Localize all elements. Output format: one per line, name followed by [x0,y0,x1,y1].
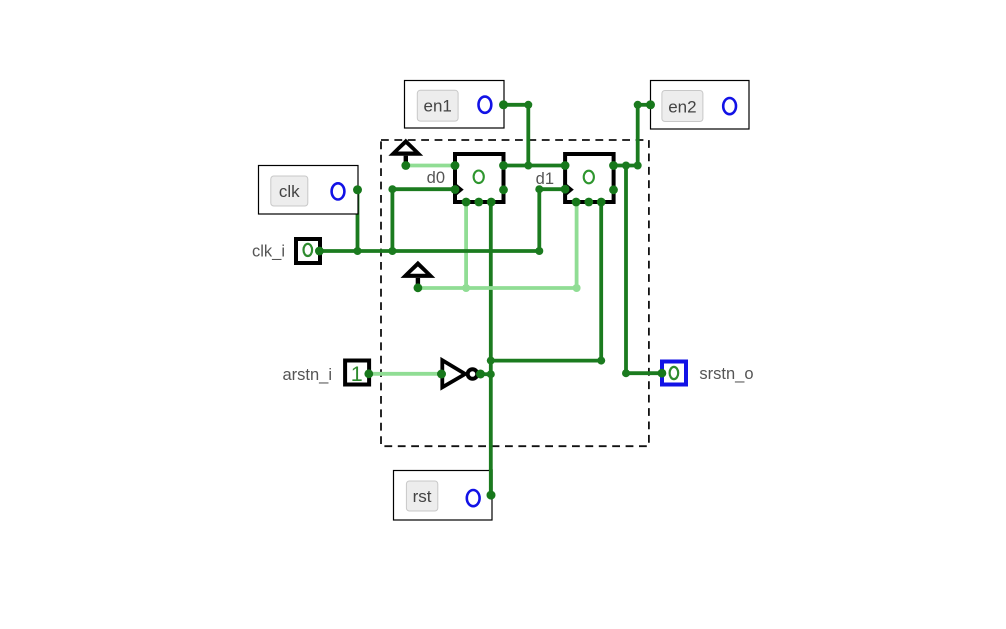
svg-text:arstn_i: arstn_i [282,366,332,384]
port clk_i [296,239,324,263]
wire net6 light-green vertical d0 bottom-left [464,202,468,288]
node net3 junction d0 branch [388,247,396,255]
wire net5 vertical to d1 bottom [599,202,603,361]
node net2 corner top [634,101,642,109]
input box clk [259,166,363,215]
node net1 junction [524,162,532,170]
svg-text:d0: d0 [427,169,445,187]
node net2 junction [622,162,630,170]
subcircuit dashed boundary [381,140,649,446]
node net2 corner mid [634,162,642,170]
node net5 corner [597,357,605,365]
svg-text:clk: clk [279,182,300,201]
node net5 junction not output [487,370,495,378]
wire net3 branch vertical to d0 [390,189,394,251]
node net3 corner d0 branch [388,185,396,193]
wire net3 horizontal to d1 clk [539,187,565,191]
input box en1 [405,81,509,129]
wire net2 vertical to srstn_o [624,166,628,374]
op-amp U1 NOT gate [437,360,485,387]
svg-text:en1: en1 [424,97,452,116]
wire net7 clock symbol to d0 (light green) [406,164,455,168]
wire net3 branch horizontal to d0 clk [392,187,455,191]
wire net3 vertical to d1 clk [537,189,541,251]
wire net1 d0.Q to d1.D horizontal [504,164,566,168]
port arstn_i [345,361,373,387]
svg-text:clk_i: clk_i [252,242,285,260]
wire net3 clk vertical from clk box [356,190,360,251]
node net6 corner [573,284,581,292]
wire net5 horizontal branch [491,359,601,363]
wire net5 not-gate output stub [480,372,491,376]
wire net3 clk_i main horizontal [319,249,539,253]
wire net2 en2 horizontal [638,103,651,107]
wire net2 d1.Q horizontal [614,164,638,168]
node net5 junction branch [487,357,495,365]
node net2 corner bottom [622,369,630,377]
wire net1 en1 horizontal [504,103,529,107]
svg-text:rst: rst [413,487,432,506]
node net3 corner top d1 [535,185,543,193]
svg-text:1: 1 [351,362,363,386]
node net3 corner bottom d1 [535,247,543,255]
input box rst [394,469,496,520]
wire net2 horizontal to srstn_o [626,371,662,375]
flip-flop d0 [451,154,508,206]
node net6 junction [462,284,470,292]
wire net2 en2 vertical [636,105,640,166]
svg-text:srstn_o: srstn_o [699,365,753,383]
node net1 corner [524,101,532,109]
svg-text:en2: en2 [668,97,696,116]
wire net6 horizontal (light green, drawn over dark vertical) [418,286,577,290]
input box en2 [646,81,749,130]
svg-text:d1: d1 [536,170,554,188]
clock symbol top (triangle) [388,139,423,170]
wire net6 light-green vertical d1 bottom-left [575,202,579,288]
node net3 junction clk [354,247,362,255]
port srstn_o [658,362,687,385]
clock symbol middle (triangle) [401,261,436,292]
flip-flop d1 [561,154,618,206]
wire net1 en1 vertical [526,105,530,166]
wire net4 arstn_i to not-gate (light green) [369,372,442,376]
wire net5 main vertical d0 to rst [489,202,493,495]
